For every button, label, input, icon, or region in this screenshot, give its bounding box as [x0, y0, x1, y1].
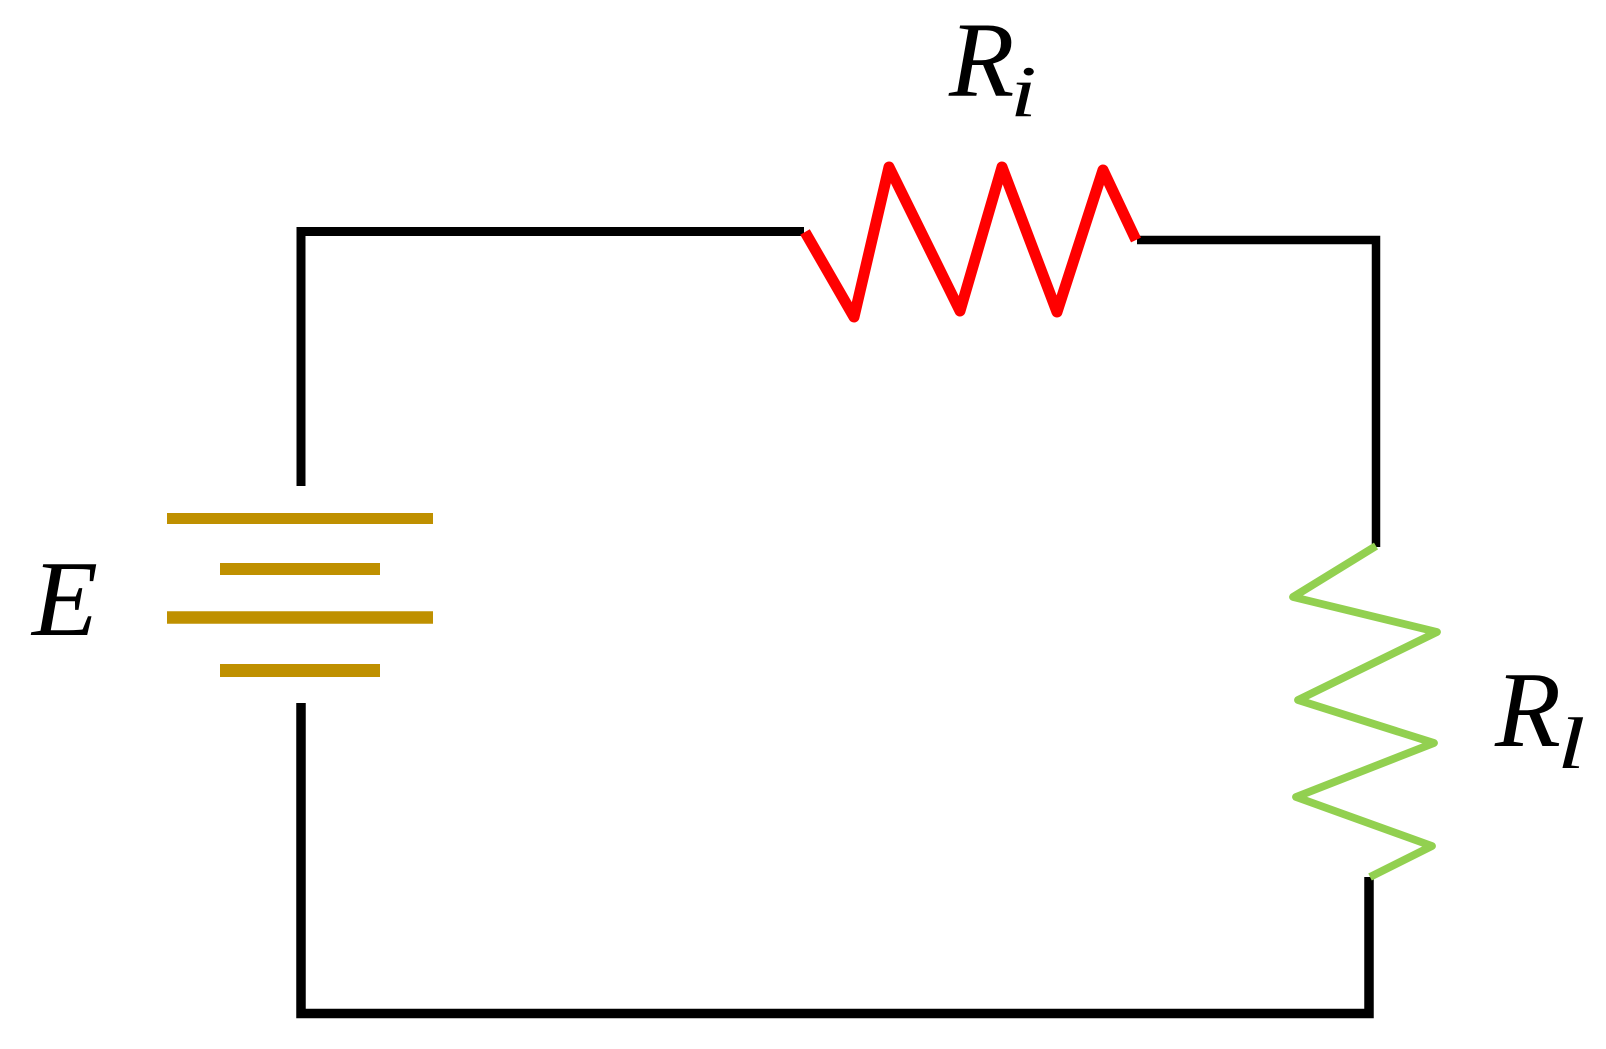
svg-text:R: R — [948, 2, 1014, 120]
svg-text:R: R — [1494, 651, 1561, 770]
svg-text:E: E — [30, 540, 98, 659]
svg-text:i: i — [1010, 52, 1037, 132]
svg-text:l: l — [1557, 704, 1585, 785]
